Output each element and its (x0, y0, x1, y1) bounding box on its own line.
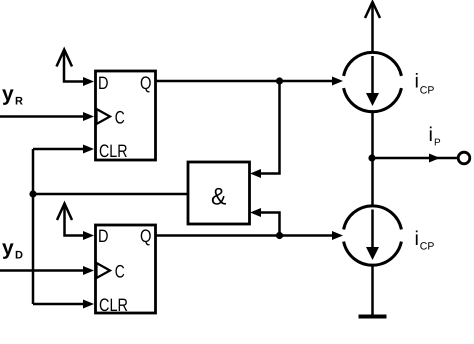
label iCP (top) (415, 71, 435, 97)
junction node Q1 (276, 77, 283, 84)
current source I1 (top, iCP) (344, 52, 402, 111)
svg-text:CLR: CLR (99, 141, 128, 161)
junction node (trunk / AND output) (29, 190, 36, 197)
label iCP (bottom) (415, 228, 435, 253)
label iP (429, 124, 442, 149)
svg-text:P: P (434, 138, 441, 149)
svg-text:y: y (2, 237, 14, 260)
wire CLR input to U1 (33, 145, 94, 154)
flip-flop U1 (top D flip-flop) (96, 71, 156, 161)
current source I2 (bottom, iCP) (344, 206, 402, 265)
svg-text:D: D (15, 250, 23, 262)
node yD label (2, 237, 23, 262)
wire yR clock input to U1 (0, 112, 94, 121)
wire yD clock input to U2 (0, 266, 94, 275)
wire iP output (372, 154, 458, 163)
svg-text:C: C (115, 108, 125, 128)
power arrow VDD1 (supply to U1 D input) (57, 50, 95, 87)
svg-text:i: i (429, 124, 433, 146)
svg-text:C: C (115, 262, 125, 282)
junction node Q2 (276, 232, 283, 239)
power arrow VDD2 (supply to U2 D input) (57, 204, 94, 241)
svg-text:CLR: CLR (99, 295, 128, 315)
flip-flop U2 (bottom D flip-flop) (96, 225, 156, 315)
wire AND output (33, 193, 188, 196)
wire Q2 to AND input (250, 208, 280, 236)
svg-text:Q: Q (140, 73, 152, 93)
svg-text:CP: CP (420, 241, 435, 253)
svg-text:D: D (98, 226, 109, 246)
svg-text:R: R (15, 96, 23, 108)
svg-text:Q: Q (140, 226, 152, 246)
wire reset trunk (AND output to both CLR) (32, 149, 35, 304)
svg-text:i: i (415, 228, 419, 250)
wire between current sources (371, 112, 374, 207)
wire Q2 output to bottom current source (156, 231, 343, 240)
svg-text:&: & (211, 184, 226, 211)
svg-text:i: i (415, 71, 419, 93)
power arrow VDD rail (top of charge pump) (365, 2, 380, 53)
node yR label (2, 83, 23, 108)
wire to ground (371, 265, 374, 316)
svg-text:D: D (98, 73, 109, 93)
junction node iP (368, 154, 375, 161)
wire Q1 to AND input (250, 81, 280, 178)
ground (359, 315, 387, 319)
wire Q1 output to top current source (156, 77, 343, 86)
svg-text:y: y (2, 83, 14, 106)
svg-text:CP: CP (420, 85, 435, 97)
terminal iP (open circle) (458, 152, 470, 164)
wire CLR input to U2 (33, 300, 94, 309)
AND gate U3 (188, 162, 250, 224)
